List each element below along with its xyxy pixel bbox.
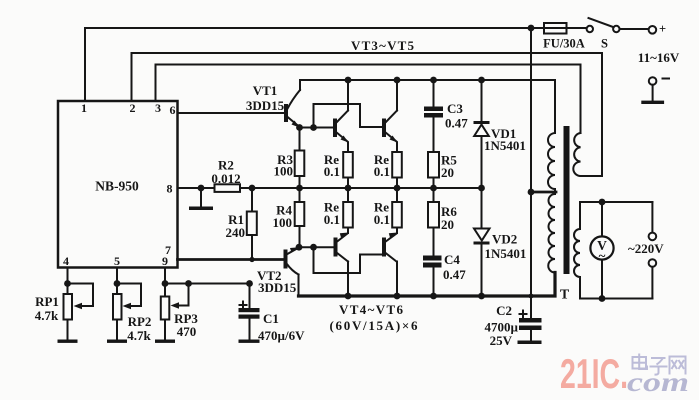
svg-text:3DD15: 3DD15 xyxy=(246,98,285,113)
wire mid bus (emitter/sense bus, pin8) xyxy=(178,187,215,189)
svg-text:VD2: VD2 xyxy=(492,232,517,247)
node pin4 junction xyxy=(64,280,71,287)
svg-text:C2: C2 xyxy=(496,303,512,318)
transformer T secondary winding xyxy=(574,202,580,299)
svg-text:20: 20 xyxy=(441,165,454,180)
node C1 top junction xyxy=(246,280,253,287)
wire top bus (+12V rail) xyxy=(85,27,587,29)
wire VT1 emitter to R3 xyxy=(299,128,301,151)
wire pin4 down xyxy=(67,268,69,295)
ground RP1 xyxy=(58,340,78,343)
svg-text:240: 240 xyxy=(226,225,246,240)
wire switch to + terminal xyxy=(620,28,649,30)
node VT5 collector junction xyxy=(345,293,352,300)
wire bus to C3 xyxy=(433,80,435,107)
wire VT5 emitter to Re xyxy=(347,228,349,234)
svg-text:~220V: ~220V xyxy=(628,241,664,256)
wire pin7 to VT2 base xyxy=(178,258,284,261)
wire VT5 collector to bottom bus xyxy=(347,262,349,297)
svg-text:0.47: 0.47 xyxy=(443,267,466,282)
node C4 bottom junction xyxy=(430,293,437,300)
ground RP3 xyxy=(155,340,175,343)
potentiometer RP2 xyxy=(113,284,141,340)
svg-text:S: S xyxy=(601,37,608,51)
svg-text:C1: C1 xyxy=(263,311,279,326)
resistor R4 xyxy=(295,188,305,247)
svg-text:100: 100 xyxy=(274,164,294,179)
svg-text:0.1: 0.1 xyxy=(324,164,340,179)
svg-text:3DD15: 3DD15 xyxy=(258,280,297,295)
svg-text:21IC.: 21IC. xyxy=(560,350,628,397)
svg-text:5: 5 xyxy=(114,254,120,268)
transistor VT2 xyxy=(284,247,299,274)
wire mid bus right section xyxy=(240,187,482,189)
svg-text:8: 8 xyxy=(167,182,173,196)
svg-text:4: 4 xyxy=(63,254,69,268)
node C3 top junction xyxy=(430,77,437,84)
transistor VT5 (bottom bank) xyxy=(334,233,349,262)
wire output loop bottom xyxy=(580,298,652,300)
wire VT3 emitter to Re xyxy=(347,143,349,153)
capacitor C2 (electrolytic) xyxy=(519,311,542,341)
node voltmeter top junction xyxy=(599,199,606,206)
switch S contact left xyxy=(587,26,593,32)
svg-text:100: 100 xyxy=(273,215,293,230)
wire base feed to VT4 base (over VT3) xyxy=(314,104,383,128)
transformer T primary lower winding xyxy=(548,194,555,273)
wire VT1 emitter to VT3 base xyxy=(300,127,334,129)
wire Re to mid bus bottom xyxy=(347,188,349,202)
svg-text:9: 9 xyxy=(162,254,168,268)
op-amp U1 IC NB-950 box xyxy=(58,101,178,268)
node base feed junction xyxy=(310,124,317,131)
node + terminal xyxy=(649,26,657,34)
svg-text:20: 20 xyxy=(441,217,454,232)
svg-text:0.47: 0.47 xyxy=(445,116,468,131)
wire output loop top xyxy=(580,201,652,203)
wire Re to mid bus xyxy=(396,178,398,189)
wire output terminal stubs xyxy=(651,202,653,299)
node base feed junction bottom xyxy=(310,244,317,251)
wire - terminal to ground xyxy=(652,85,654,101)
svg-text:VT1: VT1 xyxy=(253,83,278,98)
wire base feed to VT6 base (under VT5) xyxy=(314,247,383,273)
potentiometer RP3 xyxy=(161,284,189,340)
wire to ground pin8 xyxy=(200,188,202,207)
transformer T core xyxy=(564,126,570,274)
node pin8 ground junction xyxy=(198,185,205,192)
wire center tap to primary xyxy=(531,191,556,194)
node voltmeter bottom junction xyxy=(599,295,606,302)
watermark dian zi wang glyphs xyxy=(633,354,686,375)
node mid bus junctions xyxy=(296,185,485,192)
wire VT2 collector to bottom bus xyxy=(298,275,300,297)
switch S contact right xyxy=(613,26,619,32)
transistor VT3 xyxy=(333,111,349,143)
wire pin1 to top bus xyxy=(84,28,86,101)
node R1 top junction xyxy=(249,185,256,192)
node pin5 junction xyxy=(114,280,121,287)
wire VT3 collector to bus xyxy=(347,80,349,111)
ground battery minus xyxy=(641,101,664,104)
node VD2 bottom junction xyxy=(478,293,485,300)
resistor Re (VT5 emitter) xyxy=(343,202,353,228)
node VD1 top junction xyxy=(478,77,485,84)
node VT2 emitter junction xyxy=(296,244,303,251)
svg-text:4.7k: 4.7k xyxy=(35,308,59,323)
fuse FU/30A xyxy=(544,23,567,34)
svg-text:6: 6 xyxy=(170,103,176,117)
wire VT6 collector to bottom bus xyxy=(396,262,398,297)
svg-text:0.012: 0.012 xyxy=(211,171,240,186)
wire VT4 emitter to Re xyxy=(396,143,398,153)
node - terminal xyxy=(649,77,657,85)
transistor VT6 (bottom bank) xyxy=(382,233,398,262)
potentiometer RP1 xyxy=(64,284,94,340)
ground C1 xyxy=(239,340,260,343)
svg-text:com: com xyxy=(627,367,689,397)
wire pin9 to C1 xyxy=(165,283,250,285)
transformer T feedback winding xyxy=(573,133,580,176)
wire Re to mid bus bottom xyxy=(396,188,398,202)
node VT4 collector junction xyxy=(394,77,401,84)
node VT3 collector junction xyxy=(345,77,352,84)
wire Re to mid bus xyxy=(347,178,349,189)
switch S blade xyxy=(589,18,615,28)
resistor R5 xyxy=(428,152,439,178)
ground C2 xyxy=(518,341,542,345)
svg-text:11~16V: 11~16V xyxy=(638,50,680,65)
node VT1 emitter junction xyxy=(296,124,303,131)
resistor R3 xyxy=(295,151,305,177)
node junction top bus / center-tap feed xyxy=(528,25,535,32)
wire C3 to R5 xyxy=(433,118,435,153)
wire center-tap feed xyxy=(530,28,532,318)
wire pin5 down xyxy=(116,268,118,295)
diode VD1 xyxy=(474,80,490,188)
svg-text:2: 2 xyxy=(130,101,136,115)
wire VT6 emitter to Re xyxy=(396,228,398,234)
diode VD2 xyxy=(474,188,490,296)
node crossing blob xyxy=(529,294,534,299)
transistor VT4 (top bank) xyxy=(382,111,398,143)
wire bottom bus (bottom bank collectors to primary bottom) xyxy=(299,273,556,297)
resistor R2 xyxy=(215,184,241,192)
wire pin6 to VT1 base xyxy=(178,112,287,114)
wire pin9 down xyxy=(164,268,166,297)
svg-text:RP2: RP2 xyxy=(128,314,152,329)
node output terminal bottom xyxy=(649,259,657,267)
wire pin2 to feedback bus xyxy=(132,53,603,176)
capacitor C1 (electrolytic) xyxy=(239,284,260,340)
ground RP2 xyxy=(107,340,127,343)
label - xyxy=(663,78,670,80)
wire top-bank collector bus to transformer primary top xyxy=(300,80,555,133)
wire R1 bottom to pin7 wire xyxy=(251,235,253,260)
svg-text:4.7k: 4.7k xyxy=(127,328,151,343)
svg-text:(60V/15A)×6: (60V/15A)×6 xyxy=(330,318,419,333)
svg-text:0.1: 0.1 xyxy=(374,164,390,179)
wire R1 top xyxy=(251,188,253,212)
wire R5 to mid bus xyxy=(433,178,435,189)
resistor Re (VT3 emitter) xyxy=(343,152,353,178)
svg-text:1N5401: 1N5401 xyxy=(484,138,526,153)
capacitor C4 xyxy=(423,256,442,297)
transformer T primary upper winding xyxy=(548,133,555,192)
svg-text:0.1: 0.1 xyxy=(374,212,390,227)
node pin9 junction xyxy=(162,280,169,287)
svg-text:NB-950: NB-950 xyxy=(95,179,139,194)
svg-text:T: T xyxy=(560,288,570,303)
resistor Re (VT4 emitter) xyxy=(392,152,402,178)
voltmeter V xyxy=(590,202,613,299)
wire VT4 collector to bus xyxy=(396,80,398,111)
svg-text:0.1: 0.1 xyxy=(324,212,340,227)
ground pin8 xyxy=(189,207,213,211)
svg-text:C3: C3 xyxy=(447,101,463,116)
svg-text:470µ/6V: 470µ/6V xyxy=(258,328,305,343)
svg-text:1N5401: 1N5401 xyxy=(485,246,527,261)
resistor Re (VT6 emitter) xyxy=(392,202,402,228)
resistor R1 xyxy=(247,212,257,236)
transistor VT1 xyxy=(284,90,300,128)
svg-text:+: + xyxy=(659,22,666,36)
wire VT2 emitter to VT5 base xyxy=(299,246,334,248)
capacitor C3 xyxy=(424,107,443,118)
svg-text:FU/30A: FU/30A xyxy=(543,37,585,51)
wire pin3 to feedback bus xyxy=(156,65,581,134)
wire R3 to mid bus xyxy=(299,176,301,188)
node RP3 wiper junction xyxy=(185,280,192,287)
node center tap junction xyxy=(528,189,535,196)
wire VT1 collector to top-bank collector bus xyxy=(299,80,301,90)
svg-text:470: 470 xyxy=(177,324,197,339)
svg-text:25V: 25V xyxy=(490,333,513,348)
resistor R6 xyxy=(428,188,439,256)
node R1/pin7 junction xyxy=(249,257,254,262)
node output terminal top xyxy=(649,233,657,241)
svg-text:1: 1 xyxy=(81,101,87,115)
node VT6 collector junction xyxy=(394,293,401,300)
svg-text:3: 3 xyxy=(155,101,161,115)
svg-text:RP1: RP1 xyxy=(35,294,59,309)
svg-text:C4: C4 xyxy=(444,252,460,267)
